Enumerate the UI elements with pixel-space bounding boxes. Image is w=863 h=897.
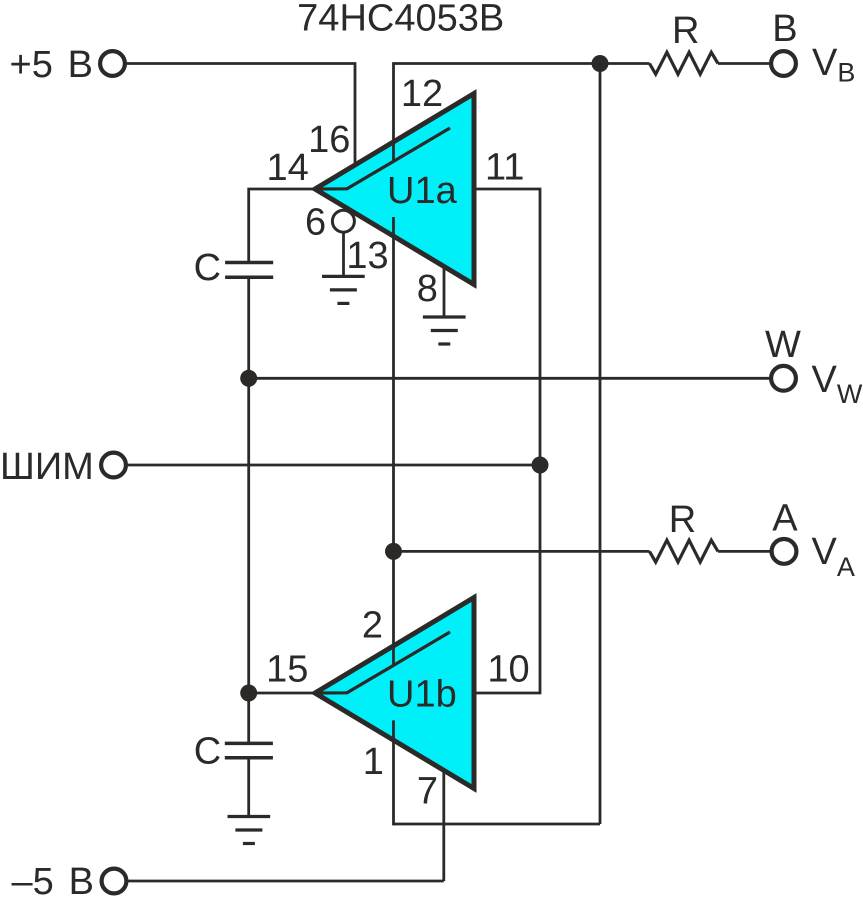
resistor R2 (bottom) (650, 540, 719, 562)
capacitor C2 (225, 743, 273, 757)
pin 6 inverter bubble (332, 210, 354, 232)
svg-text:U1a: U1a (387, 170, 458, 212)
svg-text:C: C (194, 731, 221, 773)
node junction C1 / W wire (240, 370, 257, 387)
switch arm of U1a (315, 128, 450, 189)
svg-text:W: W (765, 324, 801, 366)
terminal W output (771, 366, 796, 391)
svg-text:VB: VB (812, 42, 855, 88)
wire resistor R to terminal B (718, 62, 770, 65)
terminal +5V (100, 51, 125, 76)
svg-text:ШИМ: ШИМ (0, 446, 94, 488)
svg-text:R: R (672, 10, 699, 52)
svg-text:C: C (194, 247, 221, 289)
wire pin 6 to ground (342, 231, 345, 276)
svg-text:U1b: U1b (387, 674, 457, 716)
wire right rail net B vertical (599, 64, 602, 825)
wire pin 8 to ground (443, 267, 446, 318)
resistor R1 (top) (650, 52, 719, 74)
terminal B output (771, 51, 796, 76)
wire pin 7 to -5V (442, 771, 445, 881)
wire control line pin13/pin2 vertical (392, 217, 395, 665)
terminal A output (772, 539, 797, 564)
svg-text:74HC4053B: 74HC4053B (297, 0, 504, 40)
svg-text:7: 7 (417, 770, 438, 812)
svg-text:A: A (772, 498, 798, 540)
svg-text:VA: VA (812, 531, 855, 582)
svg-text:+5 В: +5 В (10, 44, 94, 86)
svg-text:16: 16 (308, 119, 350, 161)
capacitor C1 (225, 263, 273, 278)
IC U1b (analog switch triangle) (315, 598, 474, 789)
terminal SHIM (101, 453, 126, 478)
ground (pin 13 / pin 6) (322, 276, 365, 303)
wire box bottom net B (394, 823, 601, 826)
switch arm of U1b (315, 632, 450, 693)
svg-text:R: R (669, 499, 696, 541)
IC U1a (analog switch triangle) (315, 94, 474, 285)
svg-text:B: B (772, 8, 797, 50)
svg-text:2: 2 (362, 604, 383, 646)
ground (pin 8) (423, 317, 466, 344)
node junction SHIM / common bracket (532, 457, 549, 474)
svg-text:6: 6 (305, 202, 326, 244)
svg-text:15: 15 (266, 648, 308, 690)
svg-text:1: 1 (363, 741, 384, 783)
wire top rail pin12 to resistor R (net B) (394, 64, 650, 161)
ground (below C2) (228, 817, 271, 844)
wire SHIM input (127, 464, 540, 467)
svg-text:10: 10 (487, 648, 529, 690)
svg-text:12: 12 (401, 73, 443, 115)
wire +5V from terminal to pin 16 (126, 64, 355, 166)
wire A output to resistor R2 (394, 550, 650, 553)
svg-text:VW: VW (812, 359, 863, 409)
svg-text:11: 11 (485, 147, 524, 189)
svg-text:14: 14 (266, 147, 308, 189)
svg-text:8: 8 (417, 268, 438, 310)
node junction A wire / control line (385, 543, 402, 560)
node junction pin 15 / C2 (240, 685, 257, 702)
svg-text:13: 13 (346, 235, 388, 277)
wire pin 14 to capacitor C1 (249, 189, 315, 263)
wire -5V rail (128, 880, 444, 883)
node junction top rail / right rail (592, 55, 609, 72)
wire C2 to ground (247, 758, 250, 817)
wire resistor R2 to terminal A (718, 550, 770, 553)
wire left column C1 to C2 (247, 277, 250, 743)
wire pin 11 / pin 10 bracket (474, 189, 540, 693)
wire pin 1 (392, 720, 395, 825)
wire pin 15 (249, 692, 315, 695)
svg-text:–5 В: –5 В (12, 861, 94, 897)
wire W output (249, 377, 770, 380)
terminal -5V (102, 869, 127, 894)
